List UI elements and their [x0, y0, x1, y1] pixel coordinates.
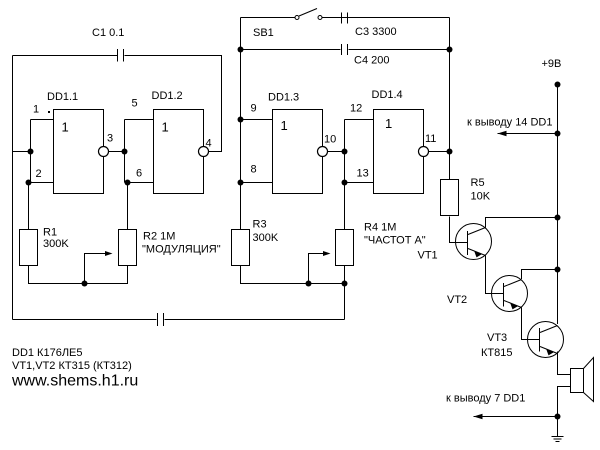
resistor R1	[20, 230, 38, 266]
junction node DD1.3 pin 8	[238, 180, 244, 186]
wire VT2 collector to rail	[522, 270, 558, 280]
junction node R4 wiper / bottom wire	[306, 281, 312, 287]
junction node DD1.1 pin2 / R1	[26, 180, 32, 186]
wire DD1.1 input tie vertical	[30, 120, 32, 183]
junction node DD1.4 pin 13 / R4	[342, 180, 348, 186]
wire DD1.3 pin 9	[241, 119, 273, 121]
svg-text:DD1.1: DD1.1	[47, 91, 78, 103]
svg-text:13: 13	[357, 168, 369, 180]
svg-text:R4 1M: R4 1M	[364, 222, 396, 234]
svg-text:9: 9	[251, 103, 257, 115]
svg-text:C3 3300: C3 3300	[355, 26, 397, 38]
wire C1 top left segment	[13, 55, 118, 57]
wire C2 bottom left segment	[13, 319, 157, 321]
wire DD1.1 pin 1	[31, 119, 54, 121]
junction node C4 left	[238, 47, 244, 53]
svg-text:R1: R1	[43, 227, 57, 239]
pin 1 stray dot	[48, 111, 50, 113]
wire R4 top lead	[344, 183, 346, 230]
wire right vertical rail to R5	[449, 18, 451, 181]
junction node DD1.3 pin 9	[238, 117, 244, 123]
junction node R2 wiper / bottom wire	[82, 281, 88, 287]
svg-text:1: 1	[162, 120, 169, 135]
wire DD1.3 output to DD1.4 input	[328, 151, 345, 153]
junction node R4 bottom / C2 wire	[342, 281, 348, 287]
svg-text:VT3: VT3	[487, 332, 507, 344]
wire R4 wiper	[309, 254, 324, 284]
wire SB1 top left segment	[241, 17, 296, 19]
junction node DD1.2 input	[122, 149, 128, 155]
resistor R2 (potentiometer)	[119, 230, 137, 266]
wire C1 top right segment	[125, 56, 222, 152]
wire R4 node to C2	[344, 284, 346, 320]
junction node rail / VT1 collector	[555, 215, 561, 221]
resistor R3	[232, 230, 250, 266]
wire DD1.2 pin 5	[125, 119, 154, 121]
svg-text:4: 4	[206, 138, 212, 150]
transistor VT1	[456, 224, 492, 260]
speaker BA1	[571, 358, 594, 402]
svg-text:5: 5	[132, 98, 138, 110]
wire C3 gap mask	[343, 17, 347, 19]
arrowhead to pin 7 DD1	[474, 414, 483, 419]
wire C4 row left segment	[241, 49, 341, 51]
svg-text:DD1.4: DD1.4	[372, 89, 403, 101]
svg-text:C1 0.1: C1 0.1	[92, 27, 124, 39]
wire VT1 collector to rail	[486, 218, 558, 228]
svg-text:к выводу 7 DD1: к выводу 7 DD1	[446, 393, 525, 405]
svg-text:300K: 300K	[253, 232, 279, 244]
wire arrow to pin 14 DD1	[498, 133, 558, 135]
wire VT3 emitter to speaker top	[558, 352, 571, 375]
junction node +9V terminal	[555, 82, 561, 88]
capacitor C4	[342, 44, 348, 55]
svg-text:КТ815: КТ815	[481, 347, 512, 359]
transistor VT2	[492, 276, 528, 312]
wire R2 wiper	[85, 254, 106, 284]
svg-text:VT1: VT1	[418, 250, 438, 262]
wire SB1 top right segment	[322, 17, 450, 19]
switch SB1	[295, 9, 322, 20]
junction node rail / pin14 arrow	[555, 131, 561, 137]
svg-text:VT1,VT2 КТ315 (КТ312): VT1,VT2 КТ315 (КТ312)	[12, 360, 132, 372]
resistor R5	[441, 180, 459, 216]
wire DD1.2 input tie vertical	[124, 120, 126, 183]
wire DD1.2 pin 6	[125, 182, 154, 184]
inverter bubble DD1.2 pin 4	[199, 147, 209, 157]
capacitor C1	[118, 49, 124, 62]
wire ground stem	[557, 417, 559, 437]
svg-text:3: 3	[107, 133, 113, 145]
junction node rail / VT2 collector	[555, 267, 561, 273]
svg-text:8: 8	[251, 164, 257, 176]
svg-text:10K: 10K	[471, 191, 491, 203]
wire R1 bottom lead	[29, 266, 128, 284]
svg-text:DD1 К176ЛЕ5: DD1 К176ЛЕ5	[12, 347, 83, 359]
svg-text:"МОДУЛЯЦИЯ": "МОДУЛЯЦИЯ"	[142, 244, 221, 256]
capacitor C2	[158, 313, 164, 326]
wire speaker bottom to ground node	[558, 387, 571, 417]
inverter bubble DD1.3 pin 10	[318, 147, 328, 157]
svg-text:SB1: SB1	[253, 27, 274, 39]
wire C2 bottom right segment	[165, 319, 345, 321]
wire C4 row right segment	[349, 49, 450, 51]
junction node DD1.1 input feedback	[28, 149, 34, 155]
wire VT2 emitter to VT3 base	[522, 308, 540, 340]
wire R3 bottom lead	[241, 266, 345, 284]
svg-text:"ЧАСТОТ А": "ЧАСТОТ А"	[364, 235, 426, 247]
svg-text:10: 10	[324, 134, 336, 146]
svg-text:6: 6	[136, 168, 142, 180]
svg-text:к выводу 14 DD1: к выводу 14 DD1	[467, 117, 553, 129]
svg-text:C4 200: C4 200	[354, 55, 389, 67]
svg-text:2: 2	[36, 168, 42, 180]
junction node C4 right	[447, 47, 453, 53]
wire DD1.4 pin 13	[345, 182, 374, 184]
gate DD1.3 box	[273, 110, 323, 194]
capacitor C3	[342, 13, 348, 24]
junction node ground / pin7 arrow	[555, 414, 561, 420]
svg-text:1: 1	[281, 118, 288, 133]
wire DD1.1 output to DD1.2 input	[109, 151, 125, 153]
gate DD1.4 box	[374, 110, 424, 194]
gate DD1.1 box	[54, 110, 104, 194]
svg-text:R5: R5	[471, 177, 485, 189]
wire DD1.3 pin 8	[241, 182, 273, 184]
wire arrow to pin 7 DD1	[474, 416, 558, 418]
wire VT1 emitter to VT2 base	[486, 256, 504, 294]
wire R1 top lead	[28, 183, 30, 230]
junction node DD1.2 pin6 / R2	[125, 180, 131, 186]
arrowhead R2 wiper	[105, 251, 113, 256]
wire feedback branch to DD1.1 input	[13, 151, 31, 153]
inverter bubble DD1.1 pin 3	[99, 147, 109, 157]
svg-text:R3: R3	[253, 219, 267, 231]
ground	[552, 437, 564, 442]
svg-text:www.shems.h1.ru: www.shems.h1.ru	[11, 373, 138, 390]
svg-text:VT2: VT2	[447, 294, 467, 306]
junction node DD1.4 output / rail	[447, 149, 453, 155]
wire +9V rail	[557, 85, 559, 325]
transistor VT3	[528, 322, 564, 358]
svg-text:+9В: +9В	[542, 58, 562, 70]
svg-text:300K: 300K	[43, 238, 69, 250]
svg-text:11: 11	[425, 133, 436, 145]
arrowhead to pin 14 DD1	[498, 131, 507, 136]
gate DD1.2 box	[154, 110, 204, 194]
svg-text:1: 1	[62, 120, 69, 135]
svg-text:12: 12	[350, 103, 362, 115]
wire R5 bottom lead to VT1 base	[450, 217, 468, 243]
junction node DD1.4 input	[342, 149, 348, 155]
resistor R4 (potentiometer)	[336, 230, 354, 266]
wire left feedback rail	[12, 56, 14, 320]
svg-text:1: 1	[33, 104, 39, 116]
wire DD1.4 output to rail	[429, 151, 450, 153]
wire DD1.4 pin 12	[345, 119, 374, 121]
svg-text:DD1.2: DD1.2	[152, 90, 183, 102]
svg-text:R2 1M: R2 1M	[143, 231, 175, 243]
svg-text:1: 1	[385, 116, 392, 131]
svg-text:DD1.3: DD1.3	[268, 92, 299, 104]
wire DD1.1 pin 2	[29, 182, 54, 184]
wire DD1.4 input tie vertical	[344, 120, 346, 183]
arrowhead R4 wiper	[323, 251, 331, 256]
wire R2 top lead	[127, 183, 129, 230]
inverter bubble DD1.4 pin 11	[419, 147, 429, 157]
wire SB1 left rail	[240, 18, 242, 230]
